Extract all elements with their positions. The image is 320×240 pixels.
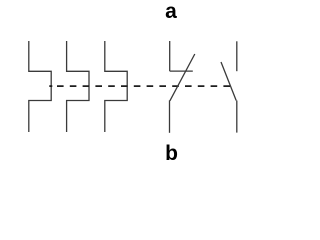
NC contact movable arm (slash) bbox=[170, 54, 195, 101]
NC contact seat bar bbox=[170, 70, 193, 72]
NO contact bottom terminal bbox=[236, 101, 238, 133]
mechanical linkage junction dash at heater 1 bbox=[49, 85, 52, 87]
NO contact (a) top terminal bbox=[236, 41, 238, 71]
NO contact movable arm bbox=[221, 62, 236, 101]
label b bbox=[161, 142, 183, 166]
NC contact (b) top terminal bbox=[169, 41, 171, 71]
thermal overload heater element 3 bbox=[105, 41, 127, 132]
thermal overload heater element 1 bbox=[29, 41, 51, 132]
NC contact bottom terminal bbox=[169, 100, 171, 132]
mechanical linkage (dashed) bbox=[57, 85, 231, 87]
thermal overload heater element 2 bbox=[67, 41, 89, 132]
label a bbox=[160, 0, 182, 24]
